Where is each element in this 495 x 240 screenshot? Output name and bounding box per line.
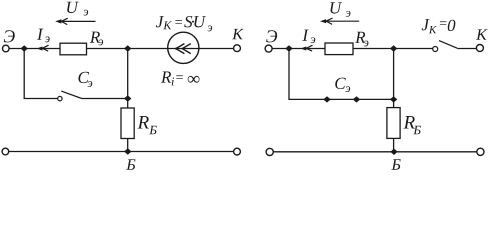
terminal bottom-left <box>2 148 9 155</box>
terminal Э (left, emitter input) <box>3 45 10 52</box>
wire: R_Б to bottom rail <box>127 139 129 152</box>
terminal bottom-right (base side) <box>234 148 241 155</box>
switch contact circle (collector branch, J_К = 0) <box>433 47 438 52</box>
wire: vertical branch from junction down and right (C_Э short) <box>289 49 394 100</box>
label U_Э (right) <box>330 2 342 13</box>
node label Э (right) <box>266 30 277 42</box>
resistor R_Б (vertical box) <box>121 108 134 139</box>
arrow U_Э (voltage arrow, pointing left) <box>55 18 95 24</box>
junction: C_Э branch / R_Б branch <box>124 95 131 101</box>
wire: switch to R_Б branch <box>82 98 128 100</box>
junction: C_Э left plate node <box>323 96 330 102</box>
junction: C branch / R_Б branch (right) <box>390 96 397 102</box>
junction: bottom rail node Б (right) <box>390 149 397 155</box>
node label Б <box>126 159 135 169</box>
junction: top rail / C_Э branch (right) <box>285 45 292 51</box>
label R_Б (right) <box>404 116 415 128</box>
resistor R_Э (box) <box>60 43 87 55</box>
label R_Э (right) <box>355 32 365 43</box>
label I_Э <box>37 29 43 40</box>
node label Э <box>4 30 15 42</box>
label I_Э (right) <box>302 30 308 41</box>
label R_Б <box>138 116 149 128</box>
junction: bottom rail node Б <box>124 148 131 154</box>
resistor R_Э (right box) <box>325 43 353 55</box>
label J_К = S·U_Э (dependent source value) <box>156 16 212 31</box>
wire: left vertical branch from junction down and right to switch <box>24 49 58 99</box>
terminal bottom-left (right circuit) <box>266 148 273 155</box>
arrow U_Э (right, pointing left) <box>320 18 359 24</box>
label C_Э <box>78 72 89 83</box>
switch blade (open collector source) <box>439 41 457 49</box>
wire: top rail, terminal Э to resistor R_Э (right) <box>272 48 325 50</box>
wire: top rail, terminal Э to resistor R_Э <box>9 48 60 50</box>
wire: top rail, R_Э through current source to terminal К <box>87 48 234 50</box>
wire: R_Б to bottom rail (right) <box>393 138 395 151</box>
wire: bottom rail <box>9 151 234 153</box>
wire: top rail, R_Э to switch contact (right) <box>353 48 433 50</box>
label R_Э <box>90 32 100 43</box>
node label Б (right) <box>391 159 400 169</box>
junction: top rail / R_Б branch (right) <box>390 45 397 51</box>
wire: switch to terminal К (right) <box>457 48 476 50</box>
label J_К = 0 <box>422 19 456 33</box>
junction: C_Э right plate node <box>353 96 360 102</box>
switch contact (small circle) <box>58 96 62 100</box>
resistor R_Б (right vertical box) <box>387 108 400 139</box>
node label К <box>232 29 244 39</box>
wire: vertical R_Б branch (right, top rail to resistor) <box>393 49 395 108</box>
label U_Э <box>67 2 79 13</box>
label C_Э (right) <box>335 78 346 89</box>
node label К (right) <box>476 29 488 39</box>
wire: bottom rail (right) <box>274 151 477 153</box>
terminal bottom-right (right circuit) <box>477 148 484 155</box>
junction: top rail / C_Э branch <box>21 45 28 51</box>
terminal К (left circuit collector) <box>234 45 241 52</box>
terminal Э (right circuit) <box>265 45 272 52</box>
label R_i = ∞ (internal resistance) <box>161 71 200 85</box>
junction: top rail / R_Б branch <box>124 45 131 51</box>
switch blade (C_Э branch open switch) <box>61 91 81 98</box>
terminal К (right circuit collector) <box>476 45 483 52</box>
arrow I_Э (right, pointing left) <box>300 45 312 51</box>
current source J_К (circle with double arrow) <box>168 32 199 63</box>
arrow I_Э (current arrow on wire, pointing left) <box>36 45 48 51</box>
wire: vertical R_Б branch (top rail to resistor) <box>127 49 129 109</box>
